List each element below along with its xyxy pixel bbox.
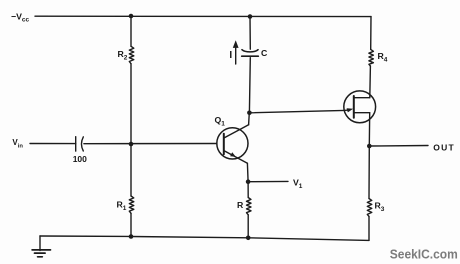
node: emitter / V1 junction [246,179,251,184]
current arrow I [233,40,239,64]
resistor R4 [369,49,374,66]
svg-text:SeekIC.com: SeekIC.com [390,246,458,261]
resistor R3 [367,199,372,217]
node: rail / C branch junction [248,14,253,19]
transistor Q1 (NPN) [217,125,249,163]
resistor R1 [129,196,134,213]
wire: Q1 collector to collector node [248,113,251,125]
capacitor C [242,50,259,57]
svg-text:R4: R4 [378,51,388,64]
svg-text:R: R [237,200,244,210]
svg-text:V1: V1 [293,178,303,191]
wire: ground drop [39,236,41,251]
svg-text:R1: R1 [117,200,127,213]
wire: collector node up to capacitor C [248,58,251,113]
wire: coupling cap to Q1 base [84,143,217,145]
wire: right branch rail corner down to R4 [370,17,372,50]
node: bias divider / Q1 base junction [129,142,134,147]
svg-text:R2: R2 [118,49,128,62]
node: collector / gate junction [247,111,252,116]
power rail -Vcc (top horizontal wire) [35,15,371,17]
wire: V1 tap lead [248,180,288,182]
svg-text:I: I [229,50,232,61]
svg-text:R3: R3 [375,201,385,214]
node: rail / R2 junction [129,14,134,19]
svg-text:C: C [261,48,268,58]
resistor R [247,198,252,215]
bottom ground bus wire [40,236,369,240]
wire: OUT lead [369,145,428,148]
resistor R2 [129,46,134,63]
wire: R4 bottom to Q2 drain [369,66,372,98]
capacitor 100 (input coupling) [76,137,84,151]
node: ground bus / R1 junction [129,234,134,239]
wire: OUT node down to R3 [368,146,370,199]
wire: Q1 emitter down to V1 node [246,163,249,181]
wire: V1 node down to R [247,182,249,198]
wire: gate wire from collector node to Q2 [249,110,344,112]
wire: Q2 source down to OUT node [368,113,370,146]
node: source / OUT junction [367,144,372,149]
svg-text:Q1: Q1 [215,115,226,128]
wire: capacitor C to rail node [249,17,251,50]
svg-text:Vin: Vin [12,138,23,149]
svg-text:100: 100 [73,154,87,164]
wire: R1 bottom to ground bus [130,213,132,236]
wire: Vin lead to coupling capacitor [30,143,76,145]
wire: R bottom to ground bus [247,215,249,238]
svg-text:OUT: OUT [433,143,455,153]
wire: R2 top lead from rail [130,16,132,46]
node: ground bus / R junction [246,236,251,241]
wire: bias node down to R1 [130,144,132,196]
ground symbol [32,250,50,257]
wire: R3 bottom to ground bus corner [368,216,370,240]
transistor Q2 (JFET) [344,91,376,123]
wire: R2 bottom to bias node [130,64,132,144]
svg-text:−Vcc: −Vcc [11,12,29,24]
